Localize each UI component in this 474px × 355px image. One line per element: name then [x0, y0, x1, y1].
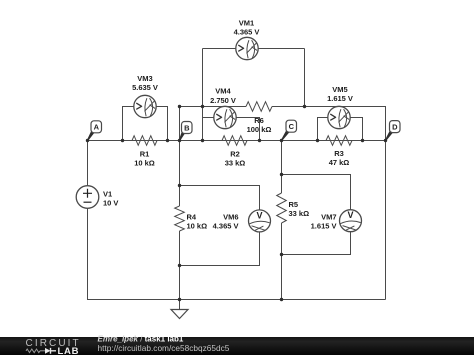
voltmeter VM6 [213, 210, 271, 232]
svg-text:5.635 V: 5.635 V [132, 83, 158, 92]
svg-text:2.750 V: 2.750 V [210, 96, 236, 105]
ground [171, 300, 188, 319]
svg-text:LAB: LAB [58, 346, 80, 355]
wire VM6 loop [180, 186, 260, 266]
svg-text:47 kΩ: 47 kΩ [329, 158, 350, 167]
svg-text:100 kΩ: 100 kΩ [247, 125, 272, 134]
wire D rail [385, 141, 387, 300]
svg-text:B: B [184, 123, 190, 132]
svg-text:R1: R1 [140, 150, 150, 159]
wire left rail lower + bottom bus [88, 208, 386, 299]
svg-text:1.615 V: 1.615 V [311, 221, 337, 230]
resistor R4 [175, 206, 207, 231]
resistor R6 [246, 102, 272, 134]
svg-text:R4: R4 [187, 213, 197, 222]
wire C rail [281, 141, 283, 300]
svg-text:R6: R6 [254, 116, 264, 125]
svg-text:VM1: VM1 [239, 19, 254, 28]
wire VM4 stubs and right drop [203, 118, 260, 141]
svg-text:1.615 V: 1.615 V [327, 94, 353, 103]
wire top R6 run B to D [180, 107, 386, 141]
svg-text:10 V: 10 V [103, 198, 118, 207]
svg-text:C: C [289, 122, 295, 131]
svg-text:D: D [392, 122, 398, 131]
svg-text:10 kΩ: 10 kΩ [187, 221, 208, 230]
wire VM3 loop [123, 107, 168, 141]
svg-text:R5: R5 [289, 200, 299, 209]
svg-text:VM5: VM5 [332, 85, 347, 94]
voltage source V1 [76, 186, 118, 209]
svg-text:V: V [256, 210, 262, 220]
voltmeter VM7 [311, 210, 362, 232]
svg-text:10 kΩ: 10 kΩ [134, 158, 155, 167]
node A [87, 121, 102, 141]
footer bar [0, 335, 474, 355]
wire VM7 loop [282, 175, 351, 255]
svg-text:4.365 V: 4.365 V [213, 221, 239, 230]
voltmeter VM5 [327, 85, 353, 129]
svg-text:33 kΩ: 33 kΩ [225, 158, 246, 167]
svg-text:A: A [94, 123, 100, 132]
wire B rail top segment [179, 107, 181, 141]
wire VM1 top + right vertical [203, 49, 305, 107]
wire VM1 left vertical [202, 49, 204, 141]
resistor R2 [222, 136, 247, 168]
resistor R5 [277, 193, 309, 223]
node B [179, 122, 192, 141]
svg-text:VM6: VM6 [223, 213, 238, 222]
svg-text:V1: V1 [103, 190, 112, 199]
svg-text:4.365 V: 4.365 V [234, 27, 260, 36]
wire VM5 loop [318, 118, 363, 141]
svg-text:VM4: VM4 [215, 87, 231, 96]
voltmeter VM1 [234, 19, 260, 60]
svg-text:R2: R2 [230, 150, 240, 159]
node C [281, 120, 297, 141]
node D [385, 121, 400, 141]
svg-text:33 kΩ: 33 kΩ [289, 209, 310, 218]
wire B rail lower [179, 141, 181, 300]
svg-text:VM3: VM3 [137, 74, 152, 83]
voltmeter VM4 [210, 87, 236, 129]
resistor R1 [132, 136, 157, 168]
svg-text:V: V [347, 210, 353, 220]
wire main A-D [88, 140, 386, 142]
svg-text:VM7: VM7 [321, 213, 336, 222]
voltmeter VM3 [132, 74, 158, 118]
resistor R3 [326, 136, 352, 167]
svg-text:R3: R3 [334, 149, 344, 158]
wire left rail upper [87, 141, 89, 186]
svg-text:http://circuitlab.com/ce58cbqz: http://circuitlab.com/ce58cbqz65dc5 [98, 343, 230, 353]
